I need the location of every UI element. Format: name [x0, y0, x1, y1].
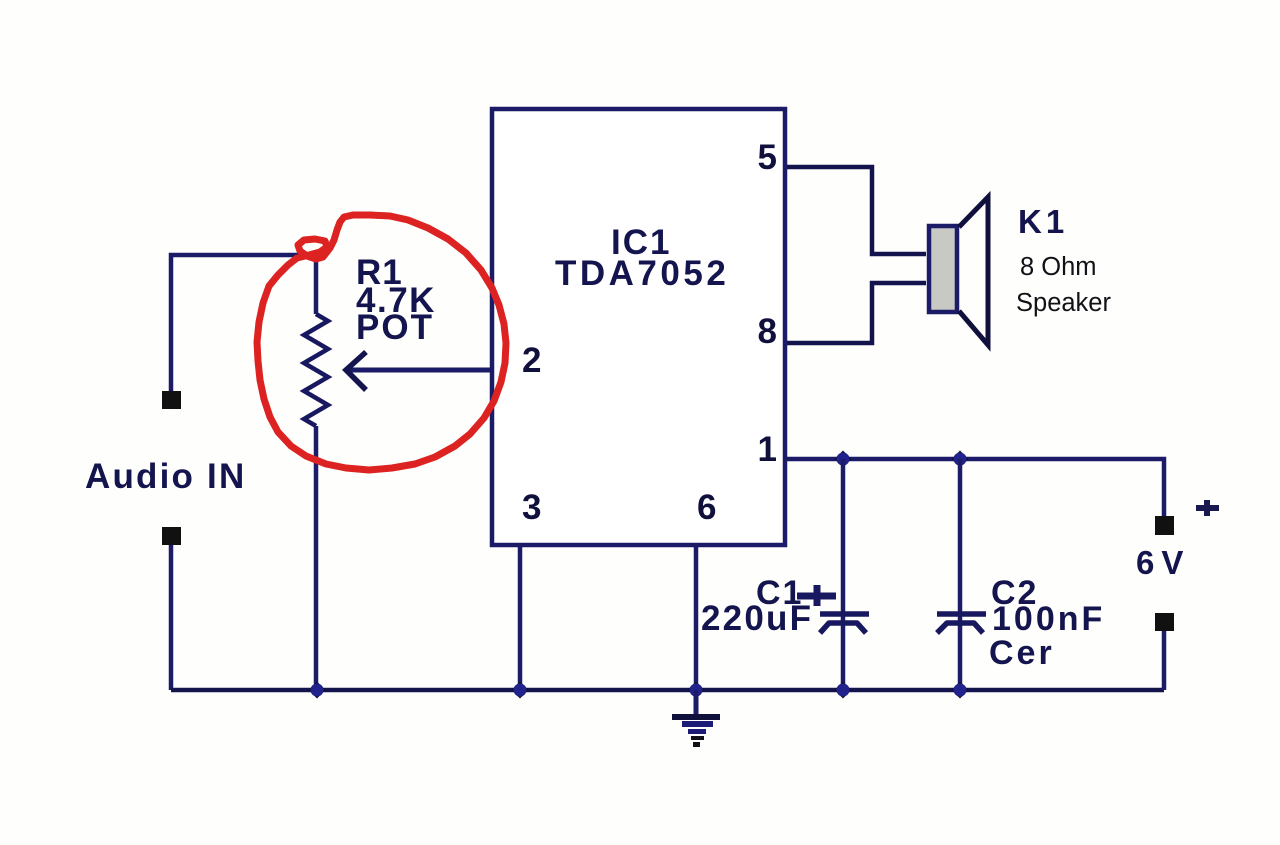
ground symbol stub: [694, 690, 699, 716]
label C1 polarity plus: [797, 585, 836, 606]
potentiometer R1 bottom lead: [314, 426, 319, 690]
junction dot C1 top: [835, 451, 852, 468]
svg-text:220uF: 220uF: [701, 599, 813, 638]
capacitor C1 top wire: [841, 459, 846, 690]
svg-text:1: 1: [758, 430, 777, 469]
capacitor C2 bottom plate: [937, 623, 983, 633]
svg-text:2: 2: [522, 341, 541, 380]
svg-text:100nF: 100nF: [992, 600, 1105, 638]
ground symbol bar 2: [682, 721, 713, 727]
svg-text:POT: POT: [356, 308, 434, 347]
junction dot ground: [688, 682, 705, 699]
svg-text:3: 3: [522, 488, 541, 527]
svg-text:6: 6: [697, 488, 716, 527]
svg-text:5: 5: [758, 138, 777, 177]
wire audio in lower terminal to ground rail: [169, 545, 174, 690]
wire pin5 to speaker top terminal: [787, 167, 926, 254]
6V - terminal square: [1155, 613, 1174, 631]
junction dot C2 bottom: [952, 682, 969, 699]
capacitor C1 top plate: [820, 611, 869, 617]
svg-text:Speaker: Speaker: [1016, 289, 1111, 317]
IC U1 body (TDA7052): [492, 109, 785, 545]
wire pin6 to ground rail: [694, 545, 699, 690]
R1 wiper arrow to pin 2: [350, 368, 492, 373]
ground symbol bar 4: [691, 736, 704, 740]
wire pin8 to speaker bottom terminal: [787, 283, 926, 343]
6V + terminal square: [1155, 516, 1174, 535]
ground symbol bar 3: [688, 729, 706, 734]
potentiometer R1 zigzag: [304, 314, 328, 426]
speaker K1 cone: [959, 197, 988, 345]
potentiometer R1 top lead: [314, 255, 319, 314]
svg-text:8 Ohm: 8 Ohm: [1020, 253, 1097, 281]
svg-text:TDA7052: TDA7052: [555, 254, 729, 293]
wire pin1 supply rail to 6V +: [787, 459, 1164, 516]
terminal square audio in upper: [162, 391, 181, 409]
svg-text:K1: K1: [1018, 203, 1068, 240]
junction dot C2 top: [952, 451, 969, 468]
wire audio in upper terminal to R1 top: [171, 255, 316, 391]
speaker K1 body: [929, 226, 957, 312]
red highlight loop around R1: [257, 215, 506, 470]
capacitor C2 top plate: [937, 611, 986, 617]
label plus (6V positive): [1196, 500, 1219, 516]
wire 6V - terminal to ground rail: [1162, 631, 1167, 690]
svg-text:Audio IN: Audio IN: [85, 457, 246, 496]
capacitor C2 top wire: [958, 459, 963, 690]
svg-text:6V: 6V: [1136, 544, 1190, 581]
junction dot pin3: [512, 682, 529, 699]
capacitor C1 bottom plate: [820, 623, 866, 633]
wire pin3 to ground rail: [518, 545, 523, 690]
ground rail: [171, 688, 1164, 693]
terminal square audio in lower: [162, 527, 181, 545]
junction dot C1 bottom: [835, 682, 852, 699]
svg-text:Cer: Cer: [989, 634, 1055, 672]
ground symbol bar 1: [672, 714, 720, 720]
svg-text:8: 8: [758, 312, 777, 351]
junction dot R1 bottom: [309, 682, 326, 699]
ground symbol bar 5: [693, 742, 700, 747]
